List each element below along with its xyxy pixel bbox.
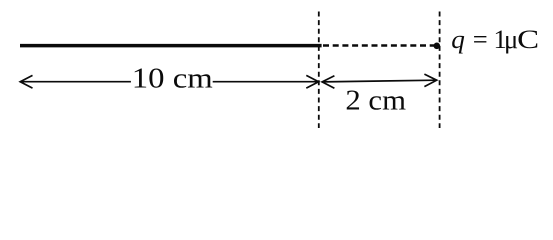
svg-text:q=1μC: q=1μC xyxy=(451,24,539,54)
dimension arrow 10 cm (shaft) xyxy=(20,81,318,83)
rod (thick solid line) xyxy=(20,44,322,48)
construction line: left vertical dashed xyxy=(318,12,320,129)
axis extension (horizontal dashed line) xyxy=(323,44,434,47)
dimension arrow 10 cm (left head) xyxy=(20,75,32,88)
construction line: right vertical dashed xyxy=(439,12,441,129)
dimension arrow 2 cm (shaft) xyxy=(322,80,437,82)
dimension arrow 10 cm (right head) xyxy=(306,75,318,88)
label 10 cm (white backing) xyxy=(131,66,213,90)
dimension arrow 2 cm (right head) xyxy=(424,74,436,87)
svg-text:10 cm: 10 cm xyxy=(132,64,213,95)
point charge q xyxy=(434,43,441,50)
svg-text:2 cm: 2 cm xyxy=(345,86,406,117)
dimension arrow 2 cm (left head) xyxy=(322,76,334,89)
